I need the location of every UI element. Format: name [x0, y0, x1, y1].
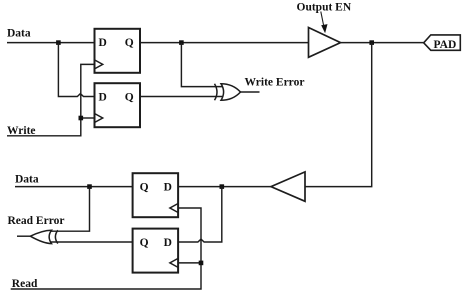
clock wedge of U1	[95, 60, 103, 69]
wire clock branch to clock of U6	[178, 262, 201, 264]
wire Output EN arrow to buffer	[321, 12, 324, 27]
svg-text:D: D	[164, 237, 172, 249]
pad P1 symbol	[424, 35, 461, 50]
wire read clock net: clock of U5 down to Read	[11, 208, 201, 289]
wire Write branch to clock of U2	[81, 117, 95, 119]
flip-flop U5 (read data FF)	[133, 173, 179, 217]
svg-text:Data: Data	[7, 28, 31, 40]
buffer U3 (tri-state output buffer)	[309, 28, 341, 58]
svg-text:D: D	[164, 181, 172, 193]
wire junction down to D of U6 (with hop over clock line)	[178, 187, 222, 242]
wire Data to D of U1	[7, 42, 95, 44]
xor gate G1 (write error compare)	[215, 84, 241, 101]
svg-text:Read Error: Read Error	[8, 215, 65, 227]
wire Write to clocks of U1 and U2	[7, 64, 95, 135]
svg-text:PAD: PAD	[434, 39, 457, 51]
buffer U4 (read input buffer)	[271, 172, 305, 201]
clock wedge of U6	[170, 258, 178, 267]
flip-flop U1 (write data FF)	[95, 29, 141, 73]
clock wedge of U5	[170, 204, 178, 213]
svg-text:Output EN: Output EN	[297, 2, 352, 14]
flip-flop U6 (read shadow FF)	[133, 229, 179, 273]
node junction dot on Write clock line	[79, 116, 84, 121]
node junction dot on Data	[56, 40, 61, 45]
wire Data down to D of U2 (with hop over clock line)	[58, 43, 94, 97]
wire junction down to XOR G1 top input	[181, 43, 222, 87]
clock wedge of U2	[95, 114, 103, 123]
node junction dot after Q of U1	[179, 40, 184, 45]
node junction dot on read data net	[220, 184, 225, 189]
wire junction down to XOR G2 top input	[51, 187, 90, 232]
node junction dot on PAD net	[369, 40, 374, 45]
svg-text:Read: Read	[12, 278, 38, 290]
xor gate G2 (read error compare)	[30, 230, 58, 243]
svg-text:D: D	[99, 37, 107, 49]
wire Q of U5 to Data out	[15, 186, 133, 188]
wire XOR G2 output	[17, 235, 30, 237]
wire Q of U2 to XOR G1 bottom input	[140, 96, 223, 98]
svg-text:Q: Q	[140, 237, 149, 249]
svg-text:Data: Data	[15, 174, 39, 186]
wire read buffer output to D of U5	[178, 186, 271, 188]
flip-flop U2 (write shadow FF)	[95, 83, 141, 127]
node junction dot on read Data	[87, 184, 92, 189]
svg-text:Write Error: Write Error	[245, 77, 305, 89]
wire Q of U6 to XOR G2 bottom input	[50, 241, 133, 243]
svg-text:D: D	[99, 91, 107, 103]
svg-text:Q: Q	[125, 91, 134, 103]
svg-text:Q: Q	[125, 37, 134, 49]
svg-text:Q: Q	[140, 181, 149, 193]
wire buffer output to PAD	[341, 42, 424, 44]
wire PAD net down to read buffer input	[305, 43, 372, 187]
wire XOR G1 output	[241, 91, 260, 93]
node junction dot on read clock	[199, 261, 204, 266]
wire Q of U1 to tri-state buffer	[140, 42, 309, 44]
